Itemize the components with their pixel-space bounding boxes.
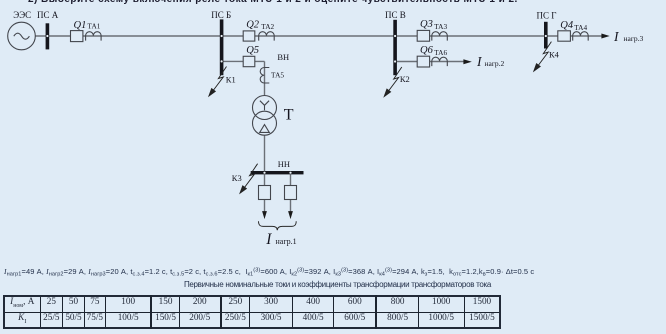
svg-text:ПС Б: ПС Б (211, 10, 231, 20)
svg-text:НН: НН (278, 159, 290, 169)
svg-text:Т: Т (284, 106, 294, 123)
svg-text:I: I (476, 54, 483, 69)
svg-text:ТА1: ТА1 (87, 22, 100, 31)
svg-text:ЭЭС: ЭЭС (13, 10, 31, 20)
svg-text:Q2: Q2 (246, 20, 260, 31)
svg-text:ТА6: ТА6 (434, 48, 447, 57)
svg-text:Q4: Q4 (560, 20, 574, 31)
svg-text:ПС В: ПС В (385, 10, 406, 20)
svg-text:К3: К3 (232, 173, 242, 183)
svg-text:I: I (265, 231, 272, 248)
svg-text:нагр.1: нагр.1 (276, 237, 297, 246)
svg-text:ПС А: ПС А (37, 10, 59, 20)
svg-text:Q5: Q5 (246, 45, 259, 56)
svg-text:ТА3: ТА3 (434, 22, 447, 31)
svg-text:ТА2: ТА2 (261, 22, 274, 31)
svg-text:К1: К1 (226, 75, 236, 85)
svg-text:ПС Г: ПС Г (537, 11, 557, 21)
svg-text:Q1: Q1 (74, 20, 87, 31)
svg-text:нагр.2: нагр.2 (485, 59, 505, 68)
svg-text:Q6: Q6 (420, 45, 434, 56)
svg-text:ТА5: ТА5 (271, 71, 284, 80)
svg-text:К4: К4 (549, 49, 560, 59)
svg-text:ВН: ВН (277, 52, 289, 62)
svg-text:нагр.3: нагр.3 (624, 34, 644, 43)
svg-text:ТА4: ТА4 (574, 23, 587, 32)
svg-text:Q3: Q3 (420, 19, 433, 30)
svg-text:I: I (613, 29, 620, 44)
svg-text:К2: К2 (400, 74, 410, 84)
